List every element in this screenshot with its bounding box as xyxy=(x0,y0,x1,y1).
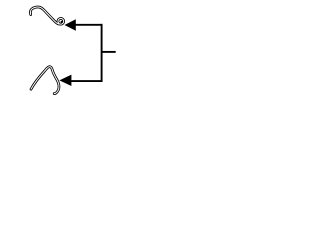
wire: bottom lead xyxy=(71,80,102,82)
spiral center dot of top element xyxy=(61,21,63,23)
background xyxy=(0,0,150,109)
wire: top lead xyxy=(76,24,103,26)
arrowhead pointing at bottom element xyxy=(59,75,71,86)
wire: common terminal stub xyxy=(102,51,116,53)
bottom curly element (outlined bent-hook squiggle) xyxy=(31,67,59,94)
arrowhead pointing at top element xyxy=(65,19,76,30)
wire: vertical bus joining both leads xyxy=(101,24,103,82)
top curly element (outlined squiggle with spiral end) xyxy=(30,7,63,24)
